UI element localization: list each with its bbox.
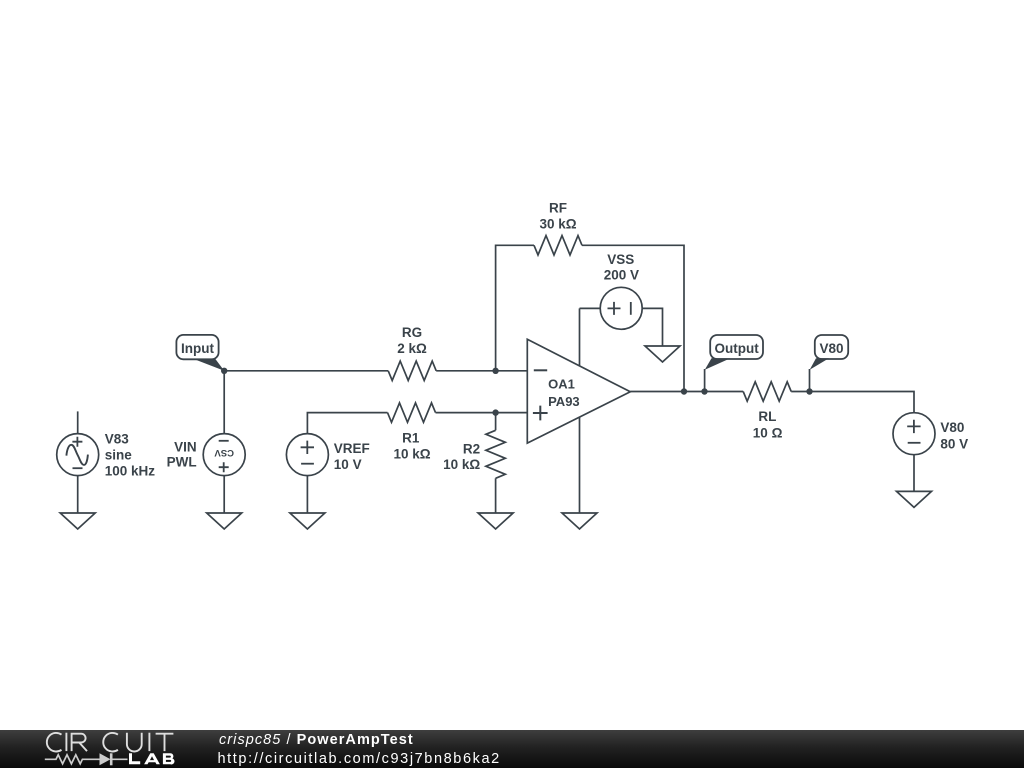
wire: RG to op-amp inverting input <box>436 370 527 372</box>
svg-text:RG: RG <box>402 325 422 340</box>
footer bar <box>0 730 1024 768</box>
footer caption line 1 <box>219 733 414 748</box>
svg-text:200 V: 200 V <box>604 268 639 283</box>
svg-text:OA1: OA1 <box>548 376 575 391</box>
svg-text:VREF: VREF <box>334 441 370 456</box>
wire: V80 to ground <box>913 455 915 492</box>
voltage source V80 <box>893 413 935 455</box>
resistor RL <box>743 382 791 401</box>
svg-text:30 kΩ: 30 kΩ <box>539 217 576 232</box>
svg-text:CSV: CSV <box>214 447 234 458</box>
voltage source VSS <box>600 287 642 329</box>
wire: VSS right lead to ground <box>642 308 662 346</box>
wire: R2 top lead <box>495 413 497 431</box>
svg-text:VSS: VSS <box>607 252 634 267</box>
ground (V80) <box>897 491 932 507</box>
wire: op-amp negative supply pin <box>579 417 581 513</box>
CircuitLab logo <box>40 730 180 768</box>
op-amp OA1 PA93 <box>527 339 630 443</box>
svg-text:V83: V83 <box>105 432 130 447</box>
ground (op-amp negative supply) <box>562 513 597 529</box>
node: feedback / inverting input junction <box>492 368 498 374</box>
wire: VSS left lead <box>580 307 601 309</box>
wire: V83 top stub <box>77 411 79 433</box>
svg-text:RF: RF <box>549 201 567 216</box>
node: R2 / non-inverting input junction <box>492 409 498 415</box>
wire: input node to RG <box>224 370 388 372</box>
voltage source VREF <box>286 434 328 476</box>
svg-text:VIN: VIN <box>174 439 197 454</box>
svg-text:10 Ω: 10 Ω <box>753 425 783 440</box>
ground (VIN) <box>207 513 242 529</box>
resistor R2 <box>486 430 505 478</box>
node label V80 <box>815 335 848 359</box>
wire: R1 to op-amp non-inverting input <box>436 412 528 414</box>
resistor RF <box>534 236 582 255</box>
node: V80 label junction <box>806 388 812 394</box>
svg-text:V80: V80 <box>819 341 843 356</box>
svg-text:RL: RL <box>758 409 776 424</box>
ground (R2) <box>478 513 513 529</box>
wire: feedback left vertical <box>496 245 534 370</box>
svg-text:R1: R1 <box>402 430 420 445</box>
wire: R2 bottom lead to ground <box>495 478 497 513</box>
wire: V83 to ground <box>77 476 79 513</box>
resistor R1 <box>388 403 436 422</box>
svg-text:Input: Input <box>181 341 214 356</box>
svg-text:100 kHz: 100 kHz <box>105 464 156 479</box>
svg-text:10 kΩ: 10 kΩ <box>393 446 430 461</box>
ground (V83) <box>60 513 95 529</box>
svg-text:R2: R2 <box>463 442 480 457</box>
svg-text:10 V: 10 V <box>334 457 362 472</box>
wire: RL to V80 <box>791 392 914 413</box>
wire: VIN vertical to input node <box>223 371 225 434</box>
svg-text:sine: sine <box>105 448 133 463</box>
footer caption line 2 <box>218 752 501 767</box>
node: input junction <box>221 368 227 374</box>
node: output / feedback junction <box>681 388 687 394</box>
voltage source VIN (CSV/PWL, flipped) <box>203 434 245 476</box>
svg-text:10 kΩ: 10 kΩ <box>443 457 480 472</box>
svg-text:PA93: PA93 <box>548 394 580 409</box>
voltage source V83 (sine) <box>57 434 99 476</box>
wire: VREF up and right to R1 <box>307 413 387 434</box>
svg-text:V80: V80 <box>940 420 964 435</box>
svg-text:PWL: PWL <box>167 454 197 469</box>
wire: VIN to ground <box>223 476 225 513</box>
wire: feedback right vertical to output <box>582 245 684 391</box>
svg-text:2 kΩ: 2 kΩ <box>397 341 427 356</box>
svg-text:80 V: 80 V <box>940 436 968 451</box>
wire: op-amp output <box>630 391 743 393</box>
wire: VREF to ground <box>306 476 308 513</box>
resistor RG <box>388 361 436 380</box>
node label Input <box>176 335 218 359</box>
ground (VREF) <box>290 513 325 529</box>
ground (VSS) <box>645 346 680 362</box>
svg-text:Output: Output <box>714 341 759 356</box>
node: output label junction <box>701 388 707 394</box>
node label Output <box>710 335 763 359</box>
wire: op-amp positive supply pin <box>579 308 581 366</box>
